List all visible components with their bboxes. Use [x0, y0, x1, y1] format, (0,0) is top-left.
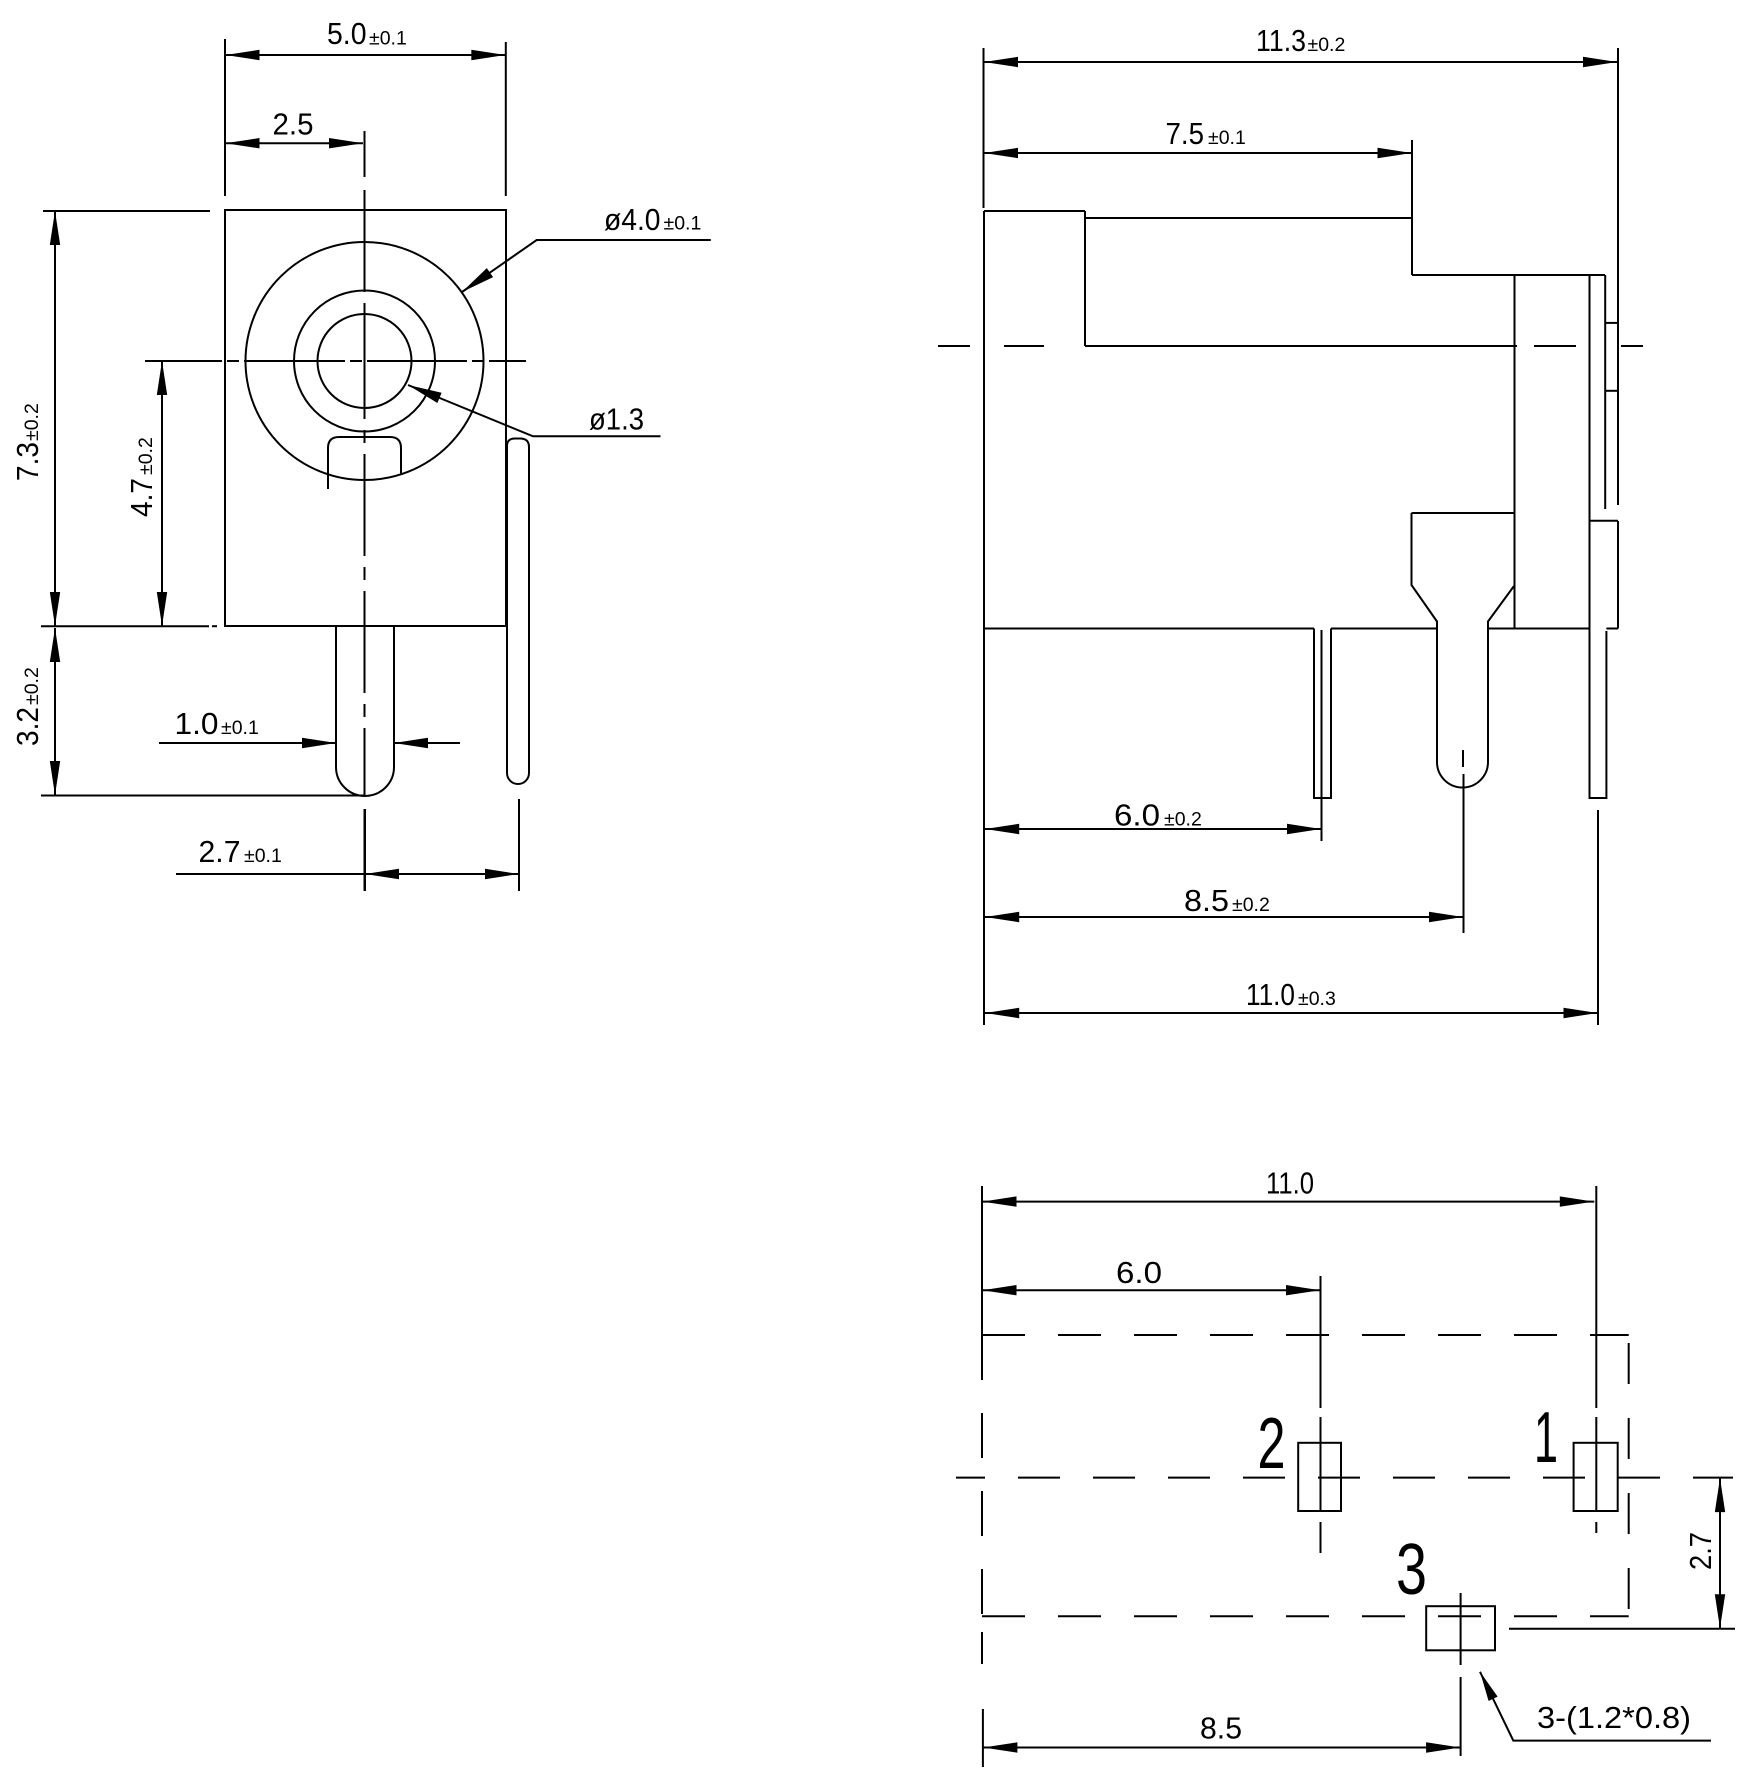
side view axis centerline dashes — [938, 345, 970, 347]
dim 7.3 line — [54, 211, 56, 626]
front horizontal centerline — [145, 360, 526, 362]
pad 3 centerline — [1460, 1593, 1462, 1756]
svg-text:11.3: 11.3 — [1256, 23, 1306, 58]
dim 3.2 line — [54, 628, 56, 795]
dim 11.0 line (footprint) — [982, 1201, 1594, 1203]
arrow 11.0fp right — [1560, 1196, 1594, 1206]
arrow 3.2 down — [50, 761, 60, 795]
leader dia4.0 — [462, 240, 711, 292]
svg-text:2.7: 2.7 — [1683, 1532, 1718, 1570]
dim 5.0 extension lines — [224, 39, 226, 196]
side view top edge 3 — [1412, 274, 1605, 276]
dim 8.5 left extension — [981, 1632, 983, 1664]
side view rear tick 2 — [1605, 390, 1618, 392]
arrow 2.5 right — [329, 138, 363, 148]
dim 6.0 extension — [1321, 630, 1323, 841]
svg-text:4.7: 4.7 — [124, 478, 159, 517]
dim 11.3 left extension — [983, 48, 985, 208]
arrow pad3 leader — [1480, 1672, 1498, 1701]
front view outer circle (barrel OD) — [246, 242, 484, 480]
dim 2.7 line — [176, 873, 519, 875]
dim 11.0 left extension — [981, 1186, 983, 1335]
side view tapered center pin — [1412, 513, 1515, 788]
svg-text:ø4.0: ø4.0 — [604, 202, 661, 237]
dim 11.3 line — [984, 61, 1618, 63]
svg-text:5.0: 5.0 — [327, 16, 367, 51]
pad 2 centerline — [1320, 1276, 1322, 1553]
side view top edge 2 — [1085, 217, 1412, 219]
footprint dashed outline right — [1628, 1335, 1630, 1616]
dim 7.5 right extension — [1411, 140, 1413, 218]
svg-text:6.0: 6.0 — [1114, 798, 1160, 833]
svg-text:6.0: 6.0 — [1116, 1255, 1162, 1290]
side view center pin center mark — [1462, 750, 1464, 767]
pad 3 — [1426, 1606, 1495, 1650]
arrow 8.5fp right — [1426, 1742, 1460, 1752]
dim 8.5 line — [985, 916, 1464, 918]
front view dimension texts — [10, 16, 701, 869]
arrow 11.0 left — [985, 1008, 1019, 1018]
front view body outline — [225, 210, 506, 626]
svg-text:3: 3 — [1396, 1530, 1427, 1610]
dim 8.5 extension — [1463, 774, 1465, 933]
leader 3-(1.2*0.8) — [1480, 1672, 1711, 1741]
dim 2.5 line — [225, 142, 363, 144]
dim 6.0 line — [985, 828, 1322, 830]
arrow 5.0 right — [471, 50, 505, 60]
side view right pin — [1590, 629, 1607, 799]
svg-text:3-(1.2*0.8): 3-(1.2*0.8) — [1537, 1700, 1691, 1735]
dim 2.7 line (footprint) — [1719, 1478, 1721, 1629]
dim 2.7 bottom extension — [1509, 1628, 1735, 1630]
arrow 2.7fp up — [1715, 1478, 1725, 1512]
front center pin — [336, 626, 394, 796]
svg-text:±0.2: ±0.2 — [135, 437, 157, 475]
svg-text:7.3: 7.3 — [10, 442, 45, 481]
arrow 4.7 down — [157, 592, 167, 626]
arrow 1.0 right — [302, 738, 336, 748]
svg-text:3.2: 3.2 — [10, 707, 45, 746]
arrow 1.0 left — [394, 738, 428, 748]
arrow 4.7 up — [157, 361, 167, 395]
footprint dashed outline top — [982, 1334, 1629, 1336]
svg-text:±0.2: ±0.2 — [21, 667, 43, 705]
dim 3.2 extension bottom — [41, 795, 365, 797]
arrow 2.7 left-tip — [365, 869, 399, 879]
side view step at 7.5 — [1411, 218, 1413, 275]
arrow 3.2 up — [50, 628, 60, 662]
footprint dashed outline bottom — [982, 1615, 1629, 1617]
arrow 8.5fp left — [983, 1742, 1017, 1752]
pad 1 — [1574, 1443, 1618, 1511]
svg-text:±0.2: ±0.2 — [21, 403, 43, 441]
dim 11.0 extension — [1597, 810, 1599, 1025]
dim 2.7 extensions — [364, 809, 366, 891]
side view dimension texts — [1114, 23, 1345, 1012]
footprint horizontal centerline — [956, 1477, 1733, 1479]
dim 8.5 line (footprint) — [983, 1747, 1461, 1749]
side view plate 3 edge — [1604, 275, 1606, 509]
arrow 6.0fp right — [1286, 1285, 1320, 1295]
svg-text:±0.1: ±0.1 — [664, 213, 702, 235]
svg-text:7.5: 7.5 — [1166, 116, 1205, 151]
arrow 11.3 right — [1583, 57, 1617, 67]
side view rear tab top — [1590, 520, 1619, 522]
front view middle circle — [294, 291, 435, 432]
arrow 11.0 right — [1564, 1008, 1598, 1018]
side view rear tab right edge — [1617, 521, 1619, 629]
svg-text:1.0: 1.0 — [175, 706, 219, 741]
svg-text:±0.2: ±0.2 — [1232, 894, 1270, 916]
keyway slot — [328, 437, 401, 489]
svg-text:8.5: 8.5 — [1200, 1711, 1242, 1746]
footprint texts — [1116, 1166, 1718, 1746]
svg-text:±0.1: ±0.1 — [244, 845, 282, 867]
arrowheads footprint view — [983, 1196, 1726, 1752]
dim 7.5 line — [984, 152, 1413, 154]
dim 5.0 line — [225, 54, 506, 56]
front view inner circle (pin hole) — [318, 314, 412, 408]
arrow 8.5 right — [1429, 912, 1463, 922]
svg-text:±0.2: ±0.2 — [1164, 809, 1202, 831]
side view rear tick 1 — [1605, 322, 1618, 324]
svg-text:2: 2 — [1258, 1404, 1286, 1484]
dim 7.3 extension bottom — [41, 625, 209, 627]
dim 11.0 line — [985, 1012, 1598, 1014]
side view left pin — [1314, 629, 1331, 799]
side view bottom edge segments — [984, 628, 1314, 630]
side view step vertical / barrel front — [1084, 211, 1086, 346]
side view plate 2 edge — [1589, 275, 1591, 629]
arrow 6.0 left — [985, 824, 1019, 834]
arrow 5.0 left — [226, 50, 260, 60]
arrow 11.3 left — [984, 57, 1018, 67]
svg-text:±0.1: ±0.1 — [1208, 127, 1246, 149]
arrow 8.5 left — [985, 912, 1019, 922]
arrow 2.7fp down — [1715, 1594, 1725, 1628]
side view top edge 1 — [984, 210, 1085, 212]
side view barrel bottom internal line — [1085, 345, 1517, 347]
side view plate 1 right edge — [1514, 275, 1516, 629]
arrowheads front view — [50, 50, 519, 879]
svg-text:±0.1: ±0.1 — [369, 28, 407, 50]
dim 7.3 extension top — [43, 210, 210, 212]
svg-text:2.5: 2.5 — [273, 107, 314, 142]
svg-text:8.5: 8.5 — [1184, 883, 1229, 918]
arrow dia4.0 — [462, 268, 493, 292]
svg-text:±0.2: ±0.2 — [1308, 34, 1346, 56]
arrow 7.3 up — [50, 211, 60, 245]
svg-text:11.0: 11.0 — [1266, 1166, 1314, 1201]
svg-text:1: 1 — [1534, 1398, 1558, 1478]
leader dia1.3 — [408, 385, 661, 436]
pad 2 — [1298, 1443, 1341, 1511]
arrow 6.0fp left — [983, 1285, 1017, 1295]
arrow 2.5 left — [226, 138, 260, 148]
svg-text:ø1.3: ø1.3 — [589, 402, 644, 437]
side view rear edge + 11.3 extension — [1617, 48, 1619, 505]
arrow 7.5 right — [1378, 148, 1412, 158]
dim 4.7 line — [161, 361, 163, 626]
arrow 2.7 right-tip — [485, 869, 519, 879]
pad 1 centerline — [1595, 1186, 1597, 1533]
arrow 7.5 left — [984, 148, 1018, 158]
arrow 11.0fp left — [983, 1196, 1017, 1206]
svg-text:±0.3: ±0.3 — [1298, 988, 1336, 1010]
footprint dashed outline left — [981, 1335, 983, 1616]
front side pin — [507, 439, 529, 785]
side view left edge + extension below — [983, 211, 985, 1025]
arrow 6.0 right — [1287, 824, 1321, 834]
svg-text:11.0: 11.0 — [1246, 977, 1295, 1012]
svg-text:2.7: 2.7 — [199, 834, 241, 869]
svg-text:±0.1: ±0.1 — [221, 717, 259, 739]
arrow 7.3 down — [50, 592, 60, 626]
arrow dia1.3 — [408, 385, 442, 403]
front vertical centerline — [364, 131, 366, 891]
dim 6.0 line (footprint) — [982, 1289, 1321, 1291]
dim 1.0 lines — [159, 742, 336, 744]
arrowheads side view — [984, 57, 1617, 1018]
